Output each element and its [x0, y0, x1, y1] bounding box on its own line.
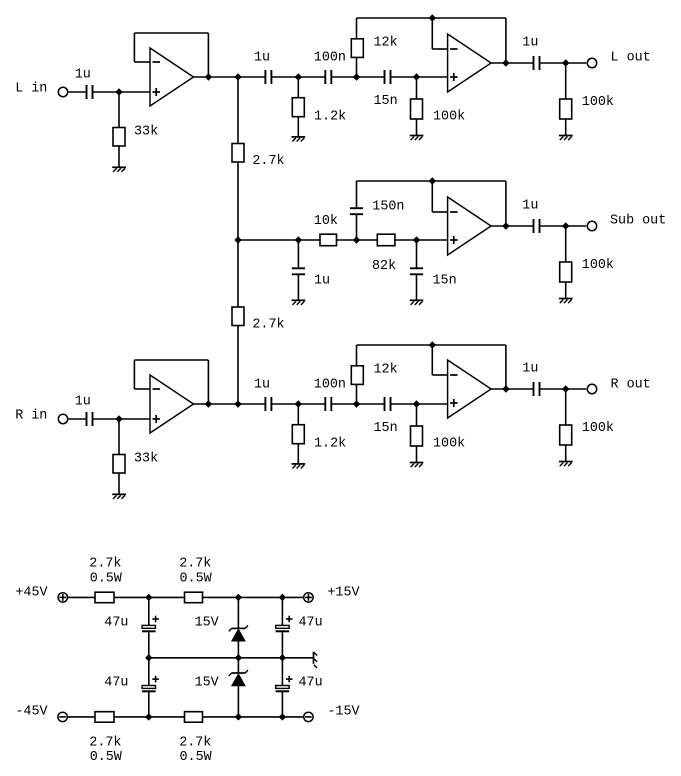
svg-text:15V: 15V: [195, 615, 219, 630]
svg-text:100k: 100k: [433, 437, 465, 452]
svg-text:15n: 15n: [433, 273, 457, 288]
svg-text:-45V: -45V: [15, 705, 47, 720]
svg-text:100k: 100k: [433, 110, 465, 125]
svg-text:1u: 1u: [254, 378, 270, 393]
svg-text:2.7k: 2.7k: [89, 557, 121, 572]
svg-text:47u: 47u: [104, 675, 128, 690]
svg-text:10k: 10k: [314, 214, 338, 229]
svg-text:33k: 33k: [134, 125, 158, 140]
svg-text:R out: R out: [611, 378, 651, 393]
svg-text:1u: 1u: [522, 199, 538, 214]
svg-text:2.7k: 2.7k: [179, 736, 211, 751]
svg-text:33k: 33k: [134, 452, 158, 467]
svg-text:15n: 15n: [374, 421, 398, 436]
svg-text:15V: 15V: [195, 675, 219, 690]
svg-text:1.2k: 1.2k: [314, 110, 346, 125]
svg-text:-15V: -15V: [327, 705, 359, 720]
svg-text:15n: 15n: [374, 94, 398, 109]
svg-text:0.5W: 0.5W: [90, 572, 123, 587]
svg-text:150n: 150n: [372, 200, 404, 215]
svg-text:100n: 100n: [314, 378, 346, 393]
svg-text:2.7k: 2.7k: [252, 154, 284, 169]
svg-text:47u: 47u: [299, 675, 323, 690]
svg-text:1u: 1u: [314, 273, 330, 288]
svg-text:1.2k: 1.2k: [314, 437, 346, 452]
svg-text:2.7k: 2.7k: [89, 736, 121, 751]
svg-text:+45V: +45V: [15, 585, 47, 600]
svg-text:100k: 100k: [582, 421, 614, 436]
svg-text:+15V: +15V: [327, 585, 359, 600]
svg-text:12k: 12k: [374, 362, 398, 377]
svg-text:L in: L in: [15, 82, 47, 97]
svg-text:47u: 47u: [104, 615, 128, 630]
svg-text:2.7k: 2.7k: [252, 317, 284, 332]
svg-text:L out: L out: [611, 51, 651, 66]
svg-text:47u: 47u: [299, 615, 323, 630]
svg-text:1u: 1u: [522, 36, 538, 51]
svg-text:100n: 100n: [314, 51, 346, 66]
svg-text:100k: 100k: [582, 258, 614, 273]
svg-text:R in: R in: [15, 409, 47, 424]
svg-text:100k: 100k: [582, 95, 614, 110]
svg-text:0.5W: 0.5W: [180, 572, 213, 587]
svg-text:1u: 1u: [75, 395, 91, 410]
svg-text:1u: 1u: [522, 362, 538, 377]
svg-text:82k: 82k: [372, 259, 396, 274]
svg-text:1u: 1u: [75, 68, 91, 83]
svg-text:1u: 1u: [254, 51, 270, 66]
svg-text:12k: 12k: [374, 35, 398, 50]
svg-text:Sub out: Sub out: [610, 214, 666, 229]
svg-text:2.7k: 2.7k: [179, 557, 211, 572]
svg-text:0.5W: 0.5W: [180, 750, 213, 765]
svg-text:0.5W: 0.5W: [90, 750, 123, 765]
